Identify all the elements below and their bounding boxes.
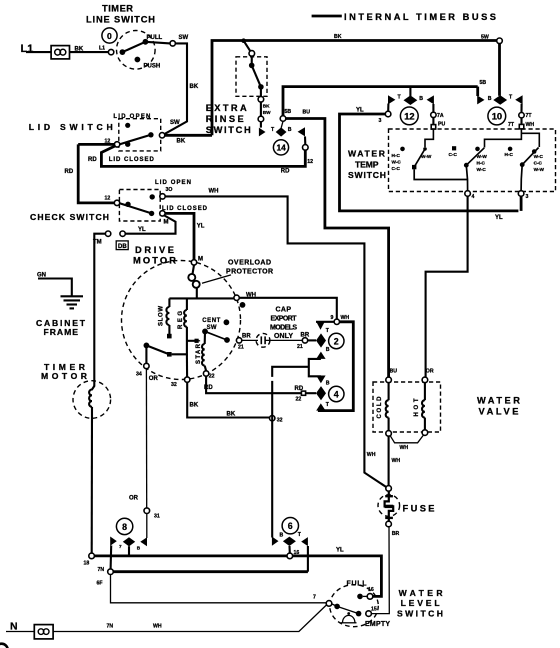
terminal 7N <box>108 569 114 575</box>
svg-text:BU: BU <box>303 110 311 116</box>
temp switch feed 7T wire <box>485 130 522 148</box>
contact dot PULL <box>143 39 149 45</box>
wire 32 reg to terminal 32 <box>186 354 188 377</box>
svg-text:6F: 6F <box>97 581 103 587</box>
svg-text:18: 18 <box>84 561 90 567</box>
pointer line overload <box>202 275 231 283</box>
svg-text:PU: PU <box>438 121 445 127</box>
svg-text:W-C: W-C <box>477 167 487 172</box>
wire RD terminal 22 to contact 4 <box>206 376 301 393</box>
svg-text:INTERNAL TIMER BUSS: INTERNAL TIMER BUSS <box>344 12 496 22</box>
extra rinse stem <box>251 56 253 65</box>
contact dot FULL <box>357 594 363 600</box>
svg-text:FRAME: FRAME <box>44 327 79 337</box>
start winding wire <box>204 331 206 344</box>
svg-text:BK: BK <box>227 412 236 418</box>
svg-text:LID CLOSED: LID CLOSED <box>162 206 208 212</box>
terminal 3 YL <box>385 111 391 117</box>
wire TM to timer motor <box>94 234 105 387</box>
terminal 12 contact 14 <box>303 145 309 151</box>
contact dot PUSH <box>135 57 141 63</box>
svg-text:16: 16 <box>294 550 300 556</box>
temp A2 labels W-W H-C W-C <box>477 154 488 172</box>
svg-text:SW: SW <box>179 35 189 41</box>
svg-text:B: B <box>288 127 292 133</box>
overload protector <box>188 274 199 288</box>
svg-text:7T: 7T <box>508 122 515 128</box>
label CENT SW <box>202 318 220 331</box>
extra rinse low terminal <box>258 116 264 122</box>
cam number 12 circled <box>400 107 418 125</box>
water level pivot dot <box>334 604 340 610</box>
contact dot 30 <box>150 194 155 199</box>
svg-text:BR: BR <box>242 333 251 339</box>
svg-text:3: 3 <box>379 118 382 124</box>
svg-text:22: 22 <box>209 374 215 380</box>
terminal 32 motor <box>185 377 190 382</box>
svg-text:RD: RD <box>281 169 290 175</box>
lid switch pivot dot <box>125 142 130 147</box>
title WATER TEMP SWITCH <box>348 148 386 180</box>
wire YL terminal 3 to temp switch 3 <box>340 114 519 211</box>
svg-text:BU: BU <box>390 369 398 375</box>
connector DB <box>116 241 128 250</box>
terminal 32 junction <box>270 416 275 421</box>
svg-text:3: 3 <box>526 194 529 200</box>
wire valve common down to fuse <box>388 436 390 486</box>
svg-text:CHECK SWITCH: CHECK SWITCH <box>30 212 109 222</box>
svg-text:2: 2 <box>334 336 339 346</box>
contact 6 right triangle T <box>301 537 308 546</box>
buss A timer motor to water level 16 <box>94 556 381 597</box>
terminal cold bottom <box>386 431 392 437</box>
svg-text:WH: WH <box>209 189 219 195</box>
svg-text:32: 32 <box>277 418 283 424</box>
svg-text:B: B <box>326 380 330 386</box>
contact dot EMPTY <box>356 611 362 617</box>
svg-text:PROTECTOR: PROTECTOR <box>226 269 273 276</box>
svg-text:EXPORT: EXPORT <box>271 315 298 322</box>
connector plug L1 <box>51 46 69 59</box>
bracket wire B2 to B4 <box>309 359 321 376</box>
wire 5B buss <box>283 87 478 119</box>
svg-text:TEMP: TEMP <box>355 159 379 169</box>
terminal hot bottom <box>422 430 428 436</box>
wire BK motor 32 to junction 32 <box>187 382 269 417</box>
title DRIVE MOTOR <box>133 245 176 266</box>
terminal 18 <box>89 553 95 559</box>
wire 7 to pivot <box>332 604 337 607</box>
wire WH internal bus <box>169 297 234 299</box>
contact 8 right triangle <box>140 537 147 546</box>
title TIMER MOTOR <box>41 362 88 381</box>
terminal OR hot <box>422 377 428 383</box>
svg-text:ONLY: ONLY <box>274 333 293 340</box>
wire N to water level 7 <box>53 605 327 632</box>
svg-text:15: 15 <box>371 607 377 613</box>
svg-text:RINSE: RINSE <box>206 114 244 124</box>
terminal 22 motor <box>203 371 208 376</box>
svg-text:7: 7 <box>119 544 122 549</box>
svg-text:21: 21 <box>238 344 244 350</box>
contact 8 diamond stem <box>128 546 130 556</box>
svg-text:C-C: C-C <box>449 152 458 157</box>
wire 31 to contact 8 <box>146 514 148 539</box>
cam number 6 circled <box>282 518 298 534</box>
svg-text:L1: L1 <box>21 43 34 55</box>
wire M to overload <box>193 265 195 274</box>
terminal square 22 contact 4 <box>301 391 305 395</box>
svg-text:START: START <box>196 339 202 364</box>
svg-text:B: B <box>137 546 141 551</box>
start winding coil <box>202 344 205 366</box>
wire RD lid 12 down to check 12 <box>78 144 114 203</box>
svg-text:EXTRA: EXTRA <box>206 103 247 113</box>
wire bracket to motor 32 <box>272 367 309 377</box>
svg-text:10: 10 <box>492 111 502 122</box>
svg-text:BK: BK <box>177 139 186 145</box>
svg-text:7N: 7N <box>107 624 114 630</box>
check switch pivot dot <box>125 202 130 207</box>
wire OR terminal 34 to 31 <box>145 369 147 508</box>
svg-text:TIMER: TIMER <box>102 3 133 13</box>
wire BU to water valve cold <box>286 119 389 378</box>
wire WH valve common link <box>390 435 423 443</box>
wire capacitor to 21 <box>265 339 302 341</box>
contact 4 diamond <box>316 386 326 400</box>
svg-text:5B: 5B <box>285 109 292 115</box>
svg-text:OVERLOAD: OVERLOAD <box>228 260 271 267</box>
label CAP EXPORT MODELS ONLY <box>270 306 297 340</box>
svg-text:YL: YL <box>197 224 205 230</box>
svg-text:YL: YL <box>356 107 364 113</box>
wire GN to ground <box>38 279 72 296</box>
extra rinse pivot dot <box>249 63 255 69</box>
wire contact 14 to terminal 12 <box>304 136 306 144</box>
svg-text:WH: WH <box>367 452 376 458</box>
svg-text:14: 14 <box>277 143 287 153</box>
svg-text:4: 4 <box>472 194 475 200</box>
node 9 WH terminal <box>334 319 339 324</box>
svg-text:N: N <box>10 621 18 633</box>
terminal BU cold <box>386 377 392 383</box>
svg-text:H-C: H-C <box>505 152 514 157</box>
contact 8 diamond <box>123 537 135 546</box>
wire BR fuse to water level 15 <box>371 527 389 614</box>
wire pivot to terminal 34 <box>145 345 147 363</box>
svg-text:7A: 7A <box>437 113 444 119</box>
reg coil bottom to square <box>167 327 187 357</box>
svg-text:OR: OR <box>426 369 434 375</box>
temp A2 blade <box>466 148 484 165</box>
svg-text:12: 12 <box>307 159 313 165</box>
svg-text:22: 22 <box>296 396 302 402</box>
extra rinse lower stem <box>260 89 262 96</box>
svg-text:B: B <box>419 96 423 102</box>
wire full dot to 16 <box>363 595 367 597</box>
contact 10 B stem <box>476 87 479 96</box>
svg-text:WH: WH <box>400 445 409 451</box>
temp A2 marker dot <box>475 147 480 152</box>
contact 2 diamond <box>316 333 326 347</box>
svg-text:CAP: CAP <box>276 306 292 313</box>
terminal 12 check switch <box>114 200 119 205</box>
svg-text:PULL: PULL <box>147 35 163 41</box>
svg-text:EMPTY: EMPTY <box>365 621 390 628</box>
terminal 34 <box>144 363 149 368</box>
svg-text:C-C: C-C <box>392 166 401 171</box>
wire SW to timer buss riser <box>165 134 212 137</box>
check switch blade to M <box>120 203 152 213</box>
terminal 16 buss <box>287 553 293 559</box>
wire to terminal 7T <box>520 104 522 113</box>
contact 6 diamond stem <box>288 546 290 553</box>
temp A3 labels W-C C-C W-W <box>534 154 545 172</box>
svg-text:WH: WH <box>341 315 350 321</box>
terminal 7A <box>431 112 436 117</box>
reg winding coil <box>184 310 187 327</box>
temp A2 square C-C <box>452 146 456 150</box>
wire timer motor to terminal 18 <box>91 407 93 553</box>
capacitor dashed circle <box>256 333 270 347</box>
svg-text:BW: BW <box>263 110 271 115</box>
lid switch contact dot <box>148 132 153 137</box>
svg-text:6: 6 <box>288 521 293 531</box>
contact dot M <box>149 211 154 216</box>
svg-text:12: 12 <box>105 196 111 202</box>
lid open marker dot <box>125 123 130 128</box>
svg-text:RD: RD <box>295 386 304 392</box>
svg-text:OR: OR <box>129 496 139 502</box>
wire overload to WH node <box>196 288 198 298</box>
wire T to terminal 3 <box>387 104 389 112</box>
terminal 31 <box>144 508 150 514</box>
temp A3 blade <box>522 148 538 165</box>
lid switch dashed box <box>119 119 161 151</box>
temp A3 pivot dot <box>520 162 525 167</box>
ground cabinet frame <box>61 296 84 308</box>
svg-text:L1: L1 <box>99 46 105 52</box>
svg-text:H-C: H-C <box>392 153 401 158</box>
terminal SW open circle <box>170 41 175 46</box>
speed selector blade <box>146 345 168 354</box>
cent switch blade <box>205 331 227 340</box>
terminal 7A2 square <box>431 125 436 130</box>
cent switch marker dot upper <box>224 319 230 325</box>
terminal TM pair <box>105 231 125 236</box>
terminal L1 open circle <box>108 49 113 54</box>
terminal 5B contact 14 <box>280 116 286 122</box>
svg-text:B: B <box>280 533 284 539</box>
contact 10 left triangle B <box>477 95 484 104</box>
check switch dashed box <box>119 190 160 222</box>
title WATER VALVE <box>477 395 520 416</box>
contact 10 diamond <box>493 95 507 105</box>
svg-text:7N: 7N <box>98 567 105 573</box>
timer line switch dashed circle <box>117 31 156 70</box>
extra rinse contact dot <box>258 84 264 90</box>
cam number 2 circled <box>329 333 344 348</box>
contact 6 diamond <box>283 537 296 546</box>
svg-text:C-C: C-C <box>534 161 543 166</box>
wire RD lid 12 to contact 14 terminal 12 <box>101 146 305 167</box>
terminal SW lid switch <box>159 133 164 138</box>
svg-text:RD: RD <box>65 169 74 175</box>
speed selector pivot dot <box>144 343 150 349</box>
buss C 7N to water level 7 <box>111 575 327 603</box>
svg-text:WATER: WATER <box>399 588 444 598</box>
wire tap to extra rinse switch <box>244 41 251 52</box>
switch blade PULL position <box>122 42 145 52</box>
svg-text:DB: DB <box>118 244 127 250</box>
pressure dome <box>341 612 357 623</box>
svg-text:M: M <box>198 257 203 263</box>
contact 10 right triangle <box>515 95 522 104</box>
water level blade to empty <box>337 606 359 613</box>
temp A2 pivot dot <box>464 163 469 168</box>
page corner glyph <box>0 644 8 648</box>
label OVERLOAD PROTECTOR <box>226 260 273 276</box>
terminal 7T <box>519 113 524 118</box>
temp switch feed 7A wire <box>425 130 433 148</box>
svg-text:WATER: WATER <box>477 395 520 405</box>
temp A2 pivot to terminal 4 <box>466 165 467 191</box>
label CABINET FRAME <box>36 318 86 337</box>
drive motor dashed circle <box>122 261 241 380</box>
contact 14 diamond <box>276 121 287 136</box>
terminal 30 open circle <box>160 194 165 199</box>
terminal 15 <box>366 611 372 617</box>
water valve dashed box <box>373 382 441 432</box>
wire YL up to temp terminal 3 <box>520 196 523 211</box>
wire buss drop to contact 10 <box>498 44 501 96</box>
terminal 4 temp switch <box>465 191 471 197</box>
cam number 14 circled <box>273 140 288 155</box>
svg-text:PUSH: PUSH <box>144 63 161 69</box>
svg-text:WH: WH <box>392 458 401 464</box>
svg-text:BK: BK <box>190 403 199 409</box>
temp A1 pivot square <box>412 165 416 169</box>
extra rinse top terminal <box>249 51 255 57</box>
svg-text:MOTOR: MOTOR <box>133 256 176 266</box>
svg-text:B: B <box>488 96 492 102</box>
svg-text:16: 16 <box>368 587 374 593</box>
svg-text:W-W: W-W <box>534 167 545 172</box>
wire internal timer buss top <box>212 41 497 136</box>
cent switch contact dot <box>224 337 230 343</box>
wire 7T to temp switch <box>520 118 522 125</box>
svg-text:CENT: CENT <box>202 318 220 324</box>
temp A1 marker dot <box>400 147 405 152</box>
svg-text:0: 0 <box>107 31 112 41</box>
svg-text:LINE SWITCH: LINE SWITCH <box>86 15 155 25</box>
legend INTERNAL TIMER BUSS <box>312 12 496 22</box>
extra rinse mid terminal <box>258 97 264 103</box>
wire to contact 14 T <box>260 102 262 128</box>
svg-text:H-C: H-C <box>477 161 486 166</box>
wire capacitor branch <box>242 339 258 341</box>
wire slow coil top <box>168 298 170 307</box>
wire square to diamond 4 <box>306 392 316 394</box>
svg-text:21: 21 <box>297 344 303 350</box>
run contact stub square <box>187 339 199 343</box>
svg-text:DRIVE: DRIVE <box>135 245 174 255</box>
terminal fuse bottom <box>386 521 392 527</box>
wire BK to timer line switch <box>70 51 109 53</box>
water temp switch dashed box <box>389 129 556 192</box>
contact 12 left triangle T <box>388 95 395 104</box>
wire 7A to temp switch <box>432 118 434 125</box>
cent switch marker dot outer <box>240 302 246 308</box>
svg-text:WATER: WATER <box>348 148 386 158</box>
contact 2 bottom triangle B <box>316 352 325 359</box>
svg-text:MODELS: MODELS <box>270 324 297 331</box>
switch pivot dot <box>120 49 126 55</box>
svg-text:BK: BK <box>334 34 342 40</box>
wire to terminal 7A <box>432 104 434 112</box>
contact 12 diamond <box>404 87 418 105</box>
svg-text:SLOW: SLOW <box>158 306 164 326</box>
wire 21 to diamond 2 <box>308 339 316 341</box>
svg-text:5W: 5W <box>481 34 489 40</box>
svg-text:SWITCH: SWITCH <box>348 170 386 180</box>
terminal 7 water level <box>326 601 332 607</box>
wire reg coil top <box>186 298 188 310</box>
svg-text:LID CLOSED: LID CLOSED <box>109 157 155 163</box>
extra rinse blade <box>252 65 261 87</box>
wire start to terminal 22 <box>205 366 206 371</box>
terminal 16 water level <box>367 594 373 600</box>
wire wrap contact 4 T to node 9 <box>318 322 353 411</box>
svg-text:12: 12 <box>404 110 414 121</box>
svg-text:RD: RD <box>88 157 97 163</box>
hot solenoid coil <box>422 383 425 430</box>
svg-text:WH: WH <box>153 624 162 630</box>
svg-text:YL: YL <box>495 215 503 221</box>
wire M to drive motor <box>165 213 194 259</box>
slow coil bottom square <box>167 325 172 338</box>
contact 8 left triangle 7 <box>110 537 117 546</box>
temp A3 pivot to terminal 3 <box>521 165 522 191</box>
timer motor dashed circle <box>73 381 111 419</box>
svg-text:REG: REG <box>178 311 184 329</box>
wire 12 to RD riser <box>78 143 114 146</box>
svg-text:B: B <box>326 347 330 353</box>
svg-text:34: 34 <box>136 372 142 378</box>
water level switch dashed circle <box>330 585 379 627</box>
cold solenoid coil <box>386 383 389 431</box>
svg-text:4: 4 <box>334 389 339 399</box>
svg-text:3O: 3O <box>166 187 173 193</box>
contact 4 top triangle B <box>316 376 325 384</box>
wire 32 junction to contact 6 <box>271 381 273 538</box>
cam number 10 circled <box>488 107 506 125</box>
svg-text:SW: SW <box>170 120 180 126</box>
title TIMER LINE SWITCH <box>86 3 155 24</box>
temp A3 feed branch <box>521 133 539 147</box>
svg-text:YL: YL <box>336 548 344 554</box>
extra rinse switch dashed box <box>236 57 267 97</box>
svg-text:W-C: W-C <box>534 154 544 159</box>
terminal WH motor <box>234 295 239 300</box>
contact 4 bottom triangle T <box>316 403 325 410</box>
temp A1 pivot to terminal 4 <box>414 169 467 179</box>
svg-text:5B: 5B <box>480 80 487 86</box>
contact 6 left triangle B <box>272 537 279 546</box>
terminal 7T2 square <box>519 124 524 128</box>
title WATER LEVEL SWITCH <box>397 588 443 618</box>
wire node 9 to contact 2 T <box>316 321 334 323</box>
